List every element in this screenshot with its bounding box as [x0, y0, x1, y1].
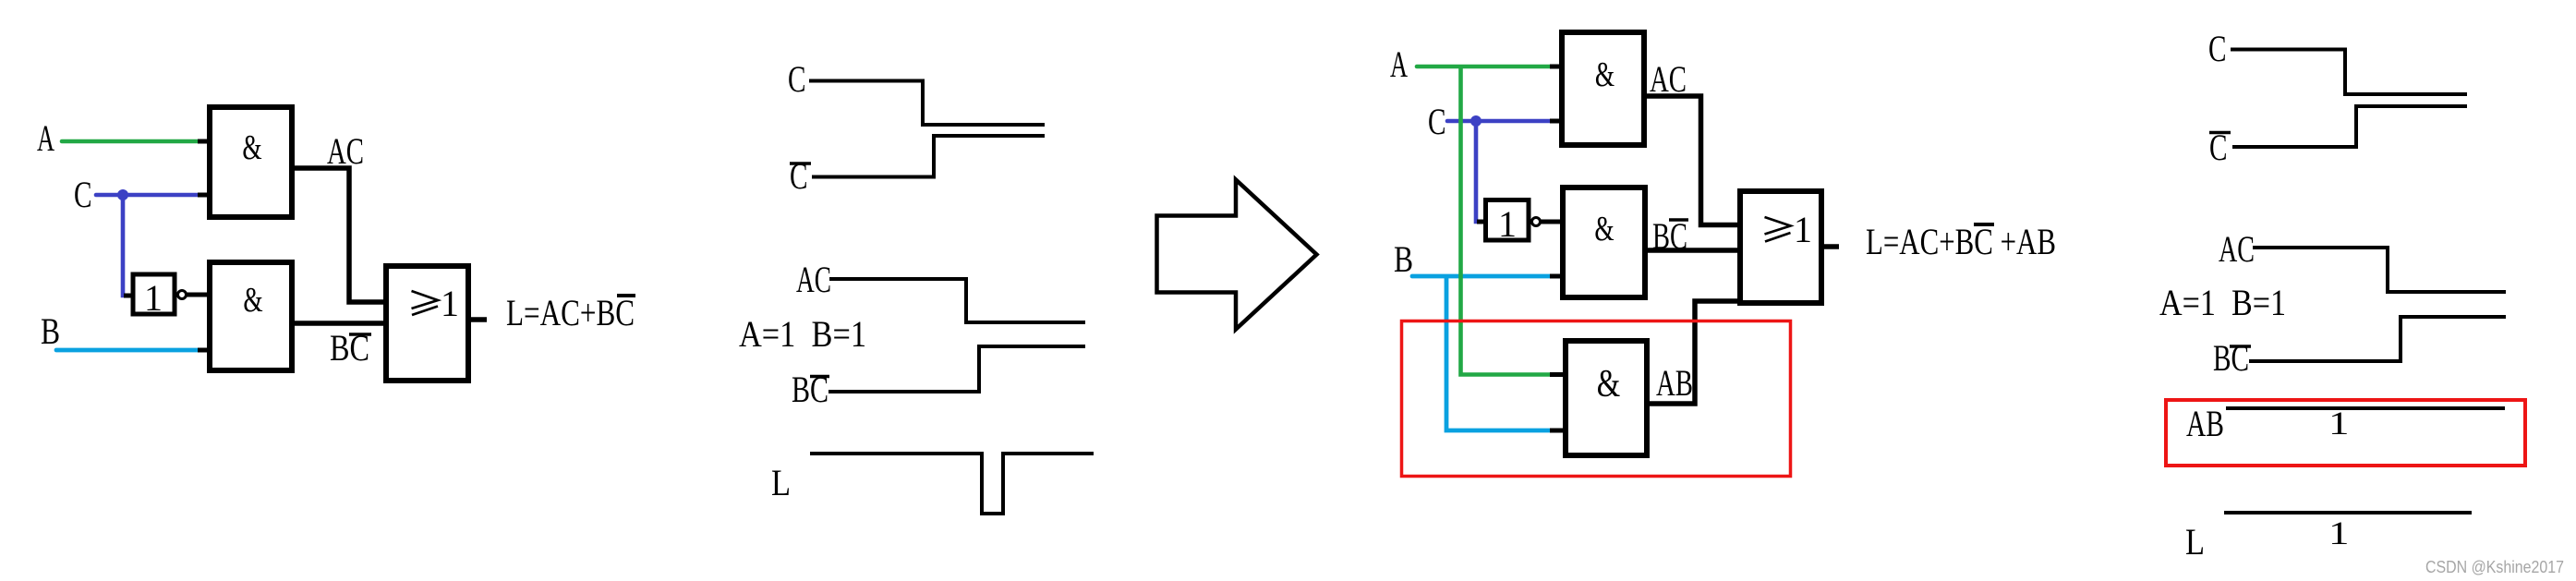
- waveform L: [810, 454, 1094, 514]
- wire A input pin stub: [1550, 65, 1561, 69]
- waveform AB (constant high): [2226, 406, 2505, 410]
- AND gate G3 (bottom left): [210, 262, 292, 370]
- svg-text:1: 1: [2328, 514, 2350, 551]
- overbar of BC-bar label: [349, 333, 371, 336]
- overbar of BC-bar label (right timing): [2230, 345, 2251, 348]
- svg-text:L=AC+BC +AB: L=AC+BC +AB: [1866, 221, 2056, 262]
- svg-text:AB: AB: [2186, 403, 2224, 444]
- wire A branch down to AND G7 (green): [1461, 67, 1555, 375]
- AND gate G5 (top right circuit): [1562, 32, 1644, 145]
- svg-text:&: &: [1595, 55, 1615, 94]
- arrow pointing right: [1157, 180, 1317, 330]
- svg-text:CSDN @Kshine2017: CSDN @Kshine2017: [2425, 558, 2564, 576]
- waveform C-bar (right): [2232, 106, 2467, 147]
- wire L output: [471, 317, 487, 322]
- wire AB from G7 up to OR gate: [1647, 301, 1739, 404]
- wire B input pin stub: [1550, 274, 1561, 279]
- wire C input pin stub: [198, 193, 208, 198]
- wire A input (green): [62, 139, 202, 144]
- wire stub green into AND G7: [1550, 372, 1565, 377]
- waveform L (constant high, right): [2224, 511, 2472, 514]
- OR gate G9 box: [1740, 191, 1821, 303]
- overbar of BC-bar signal label: [810, 375, 829, 379]
- inverter G6 output bubble: [1532, 218, 1541, 226]
- svg-text:C: C: [74, 175, 91, 216]
- wire inverter to AND G8: [1541, 220, 1562, 224]
- wire B input (cyan): [56, 348, 200, 353]
- wire B input pin stub: [198, 348, 208, 353]
- svg-text:&: &: [242, 128, 261, 167]
- svg-text:B: B: [1394, 238, 1413, 279]
- wire inverter to AND G3: [187, 293, 209, 297]
- wire C input pin stub: [1550, 119, 1561, 124]
- OR gate G4 box: [386, 266, 468, 381]
- svg-text:&: &: [243, 281, 262, 320]
- red highlight box around AB waveform: [2166, 400, 2525, 466]
- overbar of equation C: [617, 294, 635, 297]
- wire stub into inverter: [124, 294, 133, 298]
- svg-text:B: B: [41, 310, 60, 351]
- wire C branch down to inverter (blue): [1476, 121, 1479, 222]
- wire B branch down to AND G7 (cyan): [1446, 276, 1554, 430]
- wire AC from G1 to OR gate: [292, 168, 388, 302]
- svg-text:1: 1: [1498, 203, 1517, 245]
- waveform BC-bar (right): [2249, 317, 2506, 361]
- waveform AC (right): [2253, 248, 2506, 292]
- waveform C-bar: [812, 136, 1045, 177]
- svg-text:1: 1: [2328, 405, 2350, 442]
- wire BC from G8 to OR gate: [1645, 248, 1739, 253]
- wire stub cyan into AND G7: [1550, 429, 1566, 433]
- waveform C: [809, 81, 1045, 126]
- svg-text:C: C: [788, 59, 805, 101]
- wire B input (cyan): [1412, 274, 1554, 279]
- AND gate G1 (top left): [210, 107, 292, 217]
- AND gate G8 (middle right circuit): [1563, 188, 1645, 297]
- overbar of C-bar label (right timing): [2209, 131, 2231, 135]
- svg-text:C: C: [1428, 102, 1445, 143]
- wire BC from G3 to OR gate: [292, 321, 388, 326]
- waveform BC-bar: [828, 346, 1085, 392]
- wire A input (green): [1417, 65, 1554, 69]
- wire L output (right): [1821, 244, 1839, 249]
- overbar of BC-bar net label: [1669, 218, 1688, 222]
- inverter G2 box: [133, 274, 175, 314]
- wire A input pin stub: [198, 139, 208, 144]
- svg-text:&: &: [1597, 362, 1620, 405]
- wire C input (blue): [96, 193, 202, 198]
- waveform AC: [829, 279, 1085, 322]
- OR gate G9 symbol geq: [1765, 217, 1791, 242]
- svg-text:AC: AC: [796, 259, 831, 300]
- inverter G6 box: [1486, 200, 1530, 241]
- wire AC from G5 to OR gate: [1644, 96, 1739, 225]
- svg-text:L: L: [771, 464, 791, 504]
- svg-text:AC: AC: [2219, 228, 2255, 270]
- AND gate G7 (bottom right circuit): [1566, 341, 1647, 455]
- wire C branch down to inverter (blue): [123, 195, 126, 296]
- svg-text:A: A: [37, 119, 54, 160]
- svg-text:BC: BC: [2213, 337, 2249, 379]
- waveform C (right): [2231, 50, 2467, 95]
- junction on C wire (right): [1470, 115, 1482, 127]
- svg-text:1: 1: [144, 277, 163, 319]
- junction on C wire: [117, 189, 128, 200]
- overbar of C-bar label: [790, 162, 811, 165]
- svg-text:A=1 B=1: A=1 B=1: [2159, 282, 2286, 323]
- inverter G2 output bubble: [178, 291, 187, 299]
- svg-text:AB: AB: [1656, 362, 1693, 404]
- wire C input (blue): [1447, 119, 1554, 124]
- svg-text:A: A: [1390, 45, 1408, 86]
- svg-text:L=AC+BC: L=AC+BC: [506, 292, 635, 333]
- overbar of equation C (right): [1974, 223, 1994, 226]
- svg-text:L: L: [2185, 523, 2205, 563]
- svg-text:A=1 B=1: A=1 B=1: [739, 313, 866, 355]
- svg-text:&: &: [1594, 210, 1614, 248]
- red highlight box around added AND gate: [1402, 321, 1791, 477]
- OR gate G4 symbol geq: [412, 291, 439, 315]
- svg-text:1: 1: [1794, 209, 1812, 250]
- wire stub into inverter (right): [1477, 220, 1486, 224]
- svg-text:1: 1: [441, 283, 459, 324]
- svg-text:C: C: [2208, 29, 2226, 70]
